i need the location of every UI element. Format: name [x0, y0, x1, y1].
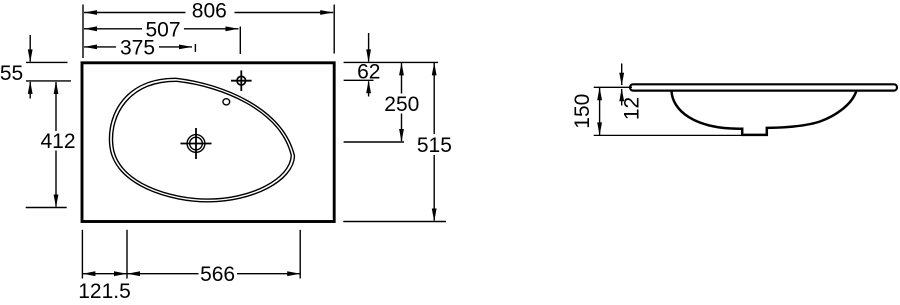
dim 412 line: [55, 82, 57, 131]
dim 375 end tick: [194, 44, 196, 52]
side view bowl profile with drain stub: [672, 91, 857, 135]
basin outline rectangle (top view): [82, 63, 334, 222]
right shared extension line top: [344, 61, 438, 63]
dim 62 arrow above: [368, 33, 370, 62]
dim 375 arrow right: [179, 45, 192, 50]
svg-text:806: 806: [192, 0, 227, 23]
bottom extension line right: [299, 230, 301, 279]
dim 507 line: [84, 28, 142, 30]
dim 806 arrow right: [320, 10, 333, 15]
dim 150 arrow bottom: [597, 122, 602, 135]
svg-text:121.5: 121.5: [78, 280, 131, 303]
svg-text:150: 150: [571, 94, 594, 129]
bowl inner outline: [113, 81, 292, 199]
svg-text:55: 55: [0, 62, 23, 85]
dim 375 line: [84, 46, 116, 48]
dim 566 arrow left: [127, 271, 140, 276]
drain crosshair vertical: [195, 128, 197, 159]
overflow hole oval: [223, 99, 230, 105]
drain crosshair horizontal: [181, 143, 212, 145]
svg-text:566: 566: [200, 263, 235, 286]
dim 55 arrow above: [29, 35, 31, 62]
dim 62 extension line bottom: [344, 79, 374, 81]
dim 806 line: [84, 12, 186, 14]
faucet crosshair vertical: [240, 70, 242, 91]
dim 507 extension line right: [239, 27, 241, 55]
dim 55 extension line top: [26, 61, 68, 63]
dim 412 arrow bottom: [54, 195, 59, 208]
dim 806 extension line right: [333, 5, 335, 54]
dim 375 arrow left: [84, 45, 97, 50]
faucet crosshair horizontal: [231, 80, 252, 82]
dim 150 extension line top: [594, 86, 632, 88]
dim 250 line: [401, 63, 403, 94]
dim 412 extension line bottom: [26, 207, 67, 209]
faucet hole circle: [237, 76, 246, 85]
svg-text:515: 515: [417, 134, 452, 157]
dim 250 arrow top: [399, 62, 404, 75]
dim 250 extension line bottom: [344, 141, 404, 143]
dim 121.5 arrow right: [114, 271, 127, 276]
bowl outer outline: [109, 78, 294, 202]
dim 150 extension line bottom: [594, 134, 743, 136]
svg-text:412: 412: [40, 130, 75, 153]
dim 55 arrow below: [29, 82, 31, 99]
drain symbol inner circle: [190, 137, 203, 150]
dim 515 line: [433, 63, 435, 134]
dim 150 arrow top: [597, 87, 602, 100]
side view slab (countertop): [630, 84, 897, 90]
dim 12 arrow above: [621, 64, 623, 86]
dim 507 arrow right: [226, 26, 239, 31]
dim 507 arrow left: [84, 26, 97, 31]
svg-text:250: 250: [384, 93, 419, 116]
dim 62 arrow below: [368, 81, 370, 96]
dim 121.5 line: [82, 273, 127, 275]
dim 250 arrow bottom: [399, 129, 404, 142]
bottom extension line middle: [126, 230, 128, 279]
dim 566 arrow right: [287, 271, 300, 276]
svg-text:375: 375: [120, 37, 155, 60]
dim 12 arrow below: [621, 89, 623, 106]
dim 806 arrow left: [84, 10, 97, 15]
dim 515 arrow bottom: [432, 209, 437, 222]
svg-text:12: 12: [621, 97, 644, 120]
bottom extension line left: [81, 230, 83, 279]
dim 412 arrow top: [54, 81, 59, 94]
svg-text:62: 62: [357, 60, 380, 83]
dim 150 line: [599, 88, 601, 135]
dim 515 arrow top: [432, 62, 437, 75]
dim 806 extension line left: [82, 5, 84, 59]
dim 566 line: [127, 273, 199, 275]
dim 55 extension line bottom: [26, 80, 71, 82]
drain symbol outer circle: [187, 135, 205, 153]
dim 515 extension line bottom: [343, 221, 446, 223]
dim 121.5 arrow left: [82, 271, 95, 276]
